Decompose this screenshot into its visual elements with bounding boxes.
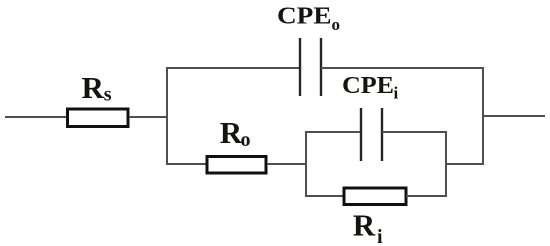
svg-text:i: i (377, 226, 383, 246)
svg-text:CPE: CPE (277, 4, 332, 30)
svg-text:R: R (220, 115, 243, 150)
svg-text:o: o (241, 129, 251, 151)
svg-text:o: o (332, 15, 341, 34)
svg-text:CPE: CPE (342, 73, 394, 99)
svg-text:R: R (353, 208, 376, 243)
svg-text:s: s (104, 84, 112, 106)
svg-text:i: i (394, 84, 399, 103)
svg-text:R: R (82, 70, 105, 105)
